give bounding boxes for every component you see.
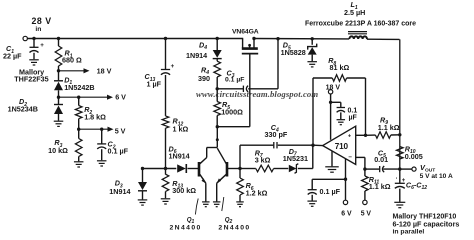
svg-text:2N4400: 2N4400	[170, 224, 202, 231]
svg-text:0.1 µF: 0.1 µF	[320, 187, 341, 196]
svg-text:+: +	[40, 42, 44, 49]
svg-text:VN64GA: VN64GA	[232, 28, 259, 35]
svg-text:22 µF: 22 µF	[3, 52, 22, 61]
svg-text:18 V: 18 V	[97, 67, 112, 76]
svg-text:1.2 kΩ: 1.2 kΩ	[246, 188, 268, 197]
svg-text:28 V: 28 V	[32, 16, 52, 26]
svg-text:330 pF: 330 pF	[265, 130, 288, 139]
svg-text:in: in	[35, 26, 41, 33]
svg-text:3 kΩ: 3 kΩ	[255, 156, 271, 165]
svg-text:µF: µF	[349, 115, 358, 122]
svg-text:6 V: 6 V	[115, 92, 126, 101]
svg-text:710: 710	[335, 142, 349, 151]
svg-text:1.1 kΩ: 1.1 kΩ	[378, 123, 400, 132]
svg-text:6-120 µF capacitors: 6-120 µF capacitors	[393, 219, 460, 228]
svg-text:1000Ω: 1000Ω	[221, 108, 243, 117]
svg-text:1N914: 1N914	[169, 152, 190, 161]
svg-text:10 kΩ: 10 kΩ	[48, 146, 68, 155]
svg-text:5 V at 10 A: 5 V at 10 A	[420, 173, 453, 180]
svg-text:1.8 kΩ: 1.8 kΩ	[84, 113, 106, 122]
svg-text:+: +	[171, 63, 175, 70]
svg-text:1N5234B: 1N5234B	[8, 105, 38, 114]
svg-text:0.1: 0.1	[348, 107, 358, 114]
svg-text:1N5242B: 1N5242B	[64, 83, 94, 92]
svg-text:680 Ω: 680 Ω	[62, 55, 82, 64]
svg-text:1N914: 1N914	[109, 187, 130, 196]
svg-text:81 kΩ: 81 kΩ	[330, 63, 350, 72]
svg-text:1.1 kΩ: 1.1 kΩ	[369, 182, 391, 191]
svg-text:1N914: 1N914	[186, 51, 207, 60]
svg-text:Ferroxcube 2213P A 160-387 cor: Ferroxcube 2213P A 160-387 core	[305, 21, 416, 28]
svg-text:0.01: 0.01	[374, 155, 388, 164]
svg-text:1 kΩ: 1 kΩ	[173, 124, 189, 133]
svg-text:6 V: 6 V	[341, 211, 352, 218]
svg-text:0.005: 0.005	[405, 152, 423, 161]
svg-text:2.5 µH: 2.5 µH	[344, 8, 365, 17]
svg-text:www.circuitsstream.blogspot.co: www.circuitsstream.blogspot.com	[196, 89, 318, 99]
svg-text:2N4400: 2N4400	[218, 224, 250, 231]
svg-text:in parallel: in parallel	[393, 229, 425, 236]
svg-text:−: −	[348, 154, 352, 161]
svg-text:5 V: 5 V	[115, 127, 126, 136]
svg-text:18 V: 18 V	[326, 84, 341, 91]
svg-text:390: 390	[198, 74, 210, 83]
svg-text:300 kΩ: 300 kΩ	[172, 186, 196, 195]
svg-text:1 µF: 1 µF	[147, 80, 162, 89]
svg-text:0.1 µF: 0.1 µF	[108, 147, 129, 156]
svg-text:5 V: 5 V	[361, 211, 372, 218]
svg-text:THF22F35: THF22F35	[14, 75, 48, 84]
svg-text:0.1 µF: 0.1 µF	[225, 77, 244, 84]
svg-text:1N5828: 1N5828	[281, 48, 306, 57]
svg-text:1N5231: 1N5231	[283, 154, 308, 163]
